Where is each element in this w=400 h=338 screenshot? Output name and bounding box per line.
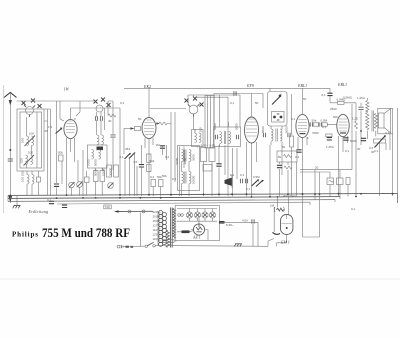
electrolytic cone dark	[225, 178, 233, 187]
svg-text:0,1: 0,1	[240, 173, 245, 177]
capacitor C4	[95, 116, 97, 120]
wire heater feed right	[220, 222, 258, 246]
svg-text:EM 1: EM 1	[280, 240, 290, 245]
trimmer arrow L1	[25, 136, 36, 147]
output transformer secondary	[374, 114, 377, 129]
node dot right	[360, 130, 362, 132]
wire mid-left drops	[62, 161, 87, 196]
svg-text:5000: 5000	[94, 169, 98, 176]
coil L1a	[27, 136, 29, 146]
output transformer primary winding	[366, 113, 369, 130]
svg-text:0,1: 0,1	[295, 155, 300, 159]
coil L9	[195, 133, 197, 143]
wire EF9 pins	[247, 142, 257, 196]
IF transformer T3 box	[178, 146, 200, 191]
capacitor C5	[100, 116, 102, 120]
tube EF9 grids	[246, 119, 257, 136]
wire cap drop	[329, 88, 331, 103]
svg-text:0,5M: 0,5M	[253, 175, 260, 179]
svg-text:5000: 5000	[350, 139, 357, 143]
coil L2b	[31, 155, 33, 165]
svg-text:0,5MΩ: 0,5MΩ	[343, 96, 353, 100]
svg-text:4,5: 4,5	[133, 160, 138, 164]
tube EBL1 envelope	[296, 114, 309, 137]
coil L6	[102, 135, 104, 145]
coil L8	[99, 150, 101, 160]
wire secondary ends	[165, 227, 167, 248]
wire EM1 feed	[278, 196, 289, 214]
mains switch	[145, 245, 147, 247]
capacitor C15 dark	[277, 165, 282, 167]
tube V1 grids	[66, 121, 75, 133]
coil box L1 outer	[17, 109, 44, 171]
capacitor C7 dark	[139, 165, 144, 167]
svg-text:50k: 50k	[162, 174, 167, 178]
wire mains to transformer	[124, 245, 158, 248]
svg-text:EBL1: EBL1	[297, 83, 307, 88]
wire detector column	[291, 94, 293, 196]
svg-text:0,2: 0,2	[172, 177, 177, 181]
svg-text:0,1: 0,1	[374, 149, 379, 153]
resistor R6	[100, 171, 105, 182]
grid stopper box EBL1b	[326, 134, 332, 137]
mains plug	[117, 245, 120, 248]
svg-text:Erdleitung: Erdleitung	[28, 209, 49, 214]
svg-text:0,1: 0,1	[322, 125, 327, 129]
svg-text:25: 25	[45, 129, 49, 133]
EM1 cathode hook dark	[273, 232, 281, 234]
bus line 1	[8, 193, 398, 195]
ground earth	[13, 206, 21, 209]
tube EBL1 grids	[298, 120, 307, 132]
svg-text:50: 50	[303, 97, 307, 101]
svg-text:6,3V~: 6,3V~	[226, 223, 234, 227]
oscillator coil box	[88, 145, 108, 168]
wire EBL1 pins	[298, 137, 307, 196]
wire speaker top	[367, 108, 397, 203]
IF transformer T1 box	[214, 127, 241, 147]
svg-text:40: 40	[108, 119, 112, 123]
wire EF9 top cap	[251, 94, 253, 118]
rectifier internals	[196, 224, 202, 232]
T3 upper core	[185, 150, 186, 162]
wire S3 feed	[150, 95, 240, 109]
wire osc column	[108, 101, 113, 170]
capacitor C20a	[310, 122, 312, 126]
heater H1	[186, 212, 192, 218]
T1 primary coil	[220, 132, 222, 144]
capacitor C9 dark	[216, 164, 221, 166]
svg-text:5000: 5000	[261, 126, 265, 133]
wire mains bottom	[158, 239, 274, 247]
T3 coil lower left	[182, 172, 184, 184]
resistor R14 zigzag	[284, 155, 292, 158]
coil L5	[97, 135, 99, 145]
left IF boxes mid column	[201, 148, 207, 162]
pickup connector box B	[337, 178, 344, 185]
heater chassis box	[175, 206, 219, 241]
wire speaker right drop	[392, 134, 394, 196]
switch S3 contacts	[185, 99, 189, 103]
capacitor C8 dark	[160, 146, 165, 148]
resistor R7	[107, 165, 112, 177]
T1 secondary coil	[229, 132, 231, 144]
tube EM1 envelope	[281, 215, 293, 235]
IF can 0 box	[192, 130, 204, 147]
wire mid verticals extra	[125, 108, 237, 196]
T3 lower core	[185, 172, 186, 184]
output transformer core	[372, 111, 374, 132]
tube EK2 envelope	[142, 118, 156, 139]
T2 primary coil	[271, 129, 273, 141]
svg-text:0,1: 0,1	[351, 207, 356, 211]
capacitor antenna series	[8, 159, 13, 161]
resistor R10	[147, 165, 152, 172]
capacitor C24 dark	[361, 138, 366, 140]
svg-text:0,2: 0,2	[150, 175, 155, 179]
svg-text:1,5: 1,5	[48, 125, 53, 129]
svg-text:100: 100	[20, 158, 24, 163]
svg-text:50k: 50k	[150, 159, 155, 163]
svg-text:100 100: 100 100	[21, 171, 25, 182]
svg-text:Philips: Philips	[12, 231, 38, 239]
wire dial drop	[139, 213, 141, 247]
resistor R4 zigzag	[108, 114, 116, 117]
trimmer CT3	[108, 183, 114, 189]
svg-text:100: 100	[21, 138, 25, 143]
svg-text:20: 20	[315, 166, 319, 170]
aux box	[203, 165, 212, 172]
wire interstage	[309, 123, 337, 125]
potentiometer tone	[374, 139, 386, 143]
tube EBL1b grids	[339, 119, 348, 131]
svg-text:0,1: 0,1	[322, 93, 327, 97]
wire pair vertical x47	[44, 109, 51, 196]
resistor R3	[85, 177, 90, 183]
tube V1 triode-hexode envelope	[64, 119, 77, 138]
power transformer heater secondary	[173, 209, 176, 239]
switch lever pivot	[279, 95, 282, 98]
capacitor C16	[263, 133, 265, 137]
svg-text:3000: 3000	[183, 157, 187, 164]
resistor R15 zigzag	[284, 166, 292, 169]
contact dots	[273, 116, 276, 119]
wire EM1 bottom	[274, 207, 287, 246]
svg-text:1M: 1M	[270, 204, 275, 208]
heater H2	[194, 212, 200, 218]
capacitor C19 dark on top bus	[327, 93, 332, 95]
grid resistor with arrow	[159, 122, 167, 125]
loudspeaker magnet	[379, 113, 385, 128]
power transformer primary loops	[159, 211, 167, 247]
capacitor grid V1 with arrow	[56, 129, 62, 134]
scan left edge artifact	[3, 85, 5, 213]
wire V1 pins	[67, 138, 75, 196]
svg-text:3-30: 3-30	[201, 144, 207, 148]
coil L1b	[32, 136, 34, 146]
coil box L1 inner	[20, 112, 42, 168]
capacitor C3 dark	[54, 184, 59, 186]
capacitor C6	[110, 135, 115, 137]
EM1 internal	[282, 222, 292, 224]
bus line 4	[57, 202, 310, 204]
wire coil box internals	[27, 112, 38, 168]
heater H4	[209, 212, 215, 218]
wire screen drops	[270, 145, 297, 196]
svg-text:AZ 1: AZ 1	[192, 235, 201, 240]
resistor R1	[37, 177, 41, 182]
wire S2 columns	[97, 108, 105, 135]
svg-text:1: 1	[307, 136, 309, 140]
switch S1 wavechange contacts	[22, 101, 26, 105]
arrow into EK2	[124, 128, 135, 130]
pickup connector box A	[327, 178, 334, 185]
coil L2a	[26, 155, 28, 165]
wire T2 connections	[270, 89, 282, 146]
pickup squiggle	[329, 181, 334, 183]
wire bus left ends	[8, 195, 10, 201]
svg-text:10000: 10000	[192, 175, 196, 184]
switch S2 contacts	[94, 100, 98, 104]
label 730 boxed	[104, 205, 111, 209]
wire EBL1 top	[302, 89, 304, 115]
resistor R8	[114, 165, 119, 177]
loudspeaker outer frame	[378, 108, 393, 134]
bus line 3	[8, 200, 335, 202]
svg-text:1,25A: 1,25A	[357, 96, 365, 100]
resistor R2	[59, 155, 64, 161]
wire right nested corners	[300, 104, 352, 172]
coil L3 below box	[27, 175, 29, 185]
resistor R5	[94, 171, 99, 182]
svg-text:1W: 1W	[64, 87, 70, 92]
wire osc drops	[96, 168, 103, 196]
wire detector top	[214, 94, 263, 128]
arrow on antenna lead	[9, 100, 12, 106]
power transformer core	[171, 208, 173, 248]
wire V1 vicinity	[44, 101, 80, 121]
capacitor C12	[240, 179, 242, 183]
resistor R9	[147, 154, 152, 163]
dial cord line	[116, 210, 154, 212]
svg-text:755 M und 788 RF: 755 M und 788 RF	[42, 225, 130, 240]
T3 coil lower right	[189, 172, 191, 184]
T3 coil upper left	[182, 150, 184, 162]
resistor R20	[346, 178, 350, 185]
svg-text:1,25: 1,25	[352, 117, 358, 121]
grid stopper box	[135, 127, 141, 131]
bus line 2	[8, 197, 340, 199]
svg-text:1000: 1000	[87, 159, 91, 166]
wire second top line	[195, 97, 228, 108]
wire heater bus	[177, 209, 217, 222]
dial pulley B	[142, 210, 145, 213]
svg-text:30000: 30000	[109, 167, 113, 176]
wire top bus	[124, 87, 330, 89]
T2 secondary coil	[280, 129, 282, 141]
resistor R19 vertical zigzag	[355, 121, 358, 129]
capacitor C20b	[319, 122, 321, 126]
screen network box	[277, 151, 297, 162]
svg-text:3000: 3000	[192, 154, 196, 161]
capacitor C2 dark	[49, 201, 54, 203]
cathode mark EBL1b	[340, 132, 346, 134]
svg-text:50k: 50k	[333, 115, 338, 119]
svg-text:50k: 50k	[58, 151, 63, 155]
resistor R18 box	[338, 101, 345, 104]
wire C23 drop	[360, 111, 362, 146]
resistor R17b box	[322, 123, 327, 126]
capacitor C18 dark	[296, 150, 301, 152]
wire antenna lead-in	[9, 94, 11, 204]
capacitor C23	[358, 107, 363, 109]
wire ground stub	[16, 196, 18, 205]
svg-text:0,5M: 0,5M	[321, 119, 328, 123]
svg-text:5000: 5000	[213, 123, 217, 130]
choke zigzag above transformer	[366, 98, 369, 112]
T1 core	[224, 131, 225, 144]
wire right bus steps	[303, 170, 398, 237]
T2 core	[276, 129, 277, 142]
capacitor C2b dark	[62, 205, 67, 207]
resistor R11	[151, 180, 156, 187]
switch unit box	[268, 92, 288, 127]
wire fuse	[174, 240, 177, 242]
resistor R17 coupling box	[313, 123, 318, 126]
wire EBL1b pins	[339, 136, 348, 196]
node bus junctions	[9, 193, 339, 199]
ground mains	[234, 244, 242, 247]
tube EF9 envelope	[245, 117, 259, 143]
node bus junctions right	[82, 193, 393, 199]
svg-text:50: 50	[138, 117, 142, 121]
wire S3 drops	[188, 95, 197, 148]
svg-text:7000: 7000	[312, 131, 319, 135]
wire EK2 pins	[124, 129, 153, 196]
svg-text:3-30: 3-30	[209, 144, 215, 148]
svg-text:2500: 2500	[330, 107, 337, 111]
svg-text:4,5V: 4,5V	[242, 219, 248, 223]
padder dark blob	[97, 147, 104, 151]
svg-text:0,2: 0,2	[385, 131, 390, 135]
capacitor C21 dark	[343, 138, 348, 140]
dial arrow	[114, 210, 118, 213]
wire left column drops	[27, 171, 39, 196]
resistor R16	[290, 136, 294, 147]
wire right column	[380, 132, 391, 197]
svg-text:50k: 50k	[312, 119, 317, 123]
svg-text:0,1: 0,1	[120, 101, 125, 105]
svg-text:100: 100	[29, 132, 34, 136]
resistor R12	[159, 180, 164, 187]
switch lever	[272, 97, 280, 105]
coil L10	[199, 133, 201, 143]
svg-text:454: 454	[125, 147, 130, 151]
wire V1 top cap	[71, 108, 121, 119]
capacitor C25 dark	[327, 138, 332, 140]
svg-text:1M: 1M	[156, 143, 161, 147]
arrow to chassis	[9, 196, 13, 203]
trimmer arrow L2	[24, 155, 35, 166]
wire T3 links	[182, 162, 190, 197]
wire T1 connections	[220, 95, 241, 147]
wire R19 column	[355, 131, 357, 196]
resistor R23 dark	[182, 230, 190, 233]
capacitor C22	[252, 219, 254, 223]
switch S3 rotor	[189, 105, 198, 114]
svg-text:EBL1: EBL1	[337, 82, 347, 87]
trimmer CT2	[77, 182, 83, 188]
wire primary taps	[158, 213, 161, 246]
wire extra verticals	[78, 150, 83, 196]
svg-text:10000: 10000	[102, 167, 106, 176]
dial pulley A	[128, 210, 131, 213]
svg-text:0,1: 0,1	[120, 155, 125, 159]
svg-text:8,2: 8,2	[230, 173, 235, 177]
svg-text:730: 730	[105, 205, 110, 209]
tube EBL1b envelope	[337, 114, 349, 136]
svg-text:5000: 5000	[285, 126, 289, 133]
component value labels	[28, 96, 390, 192]
svg-text:50: 50	[255, 101, 259, 105]
trimmer CT1	[69, 182, 75, 188]
loudspeaker cone	[384, 109, 391, 133]
power transformer HV secondary	[166, 231, 169, 248]
contact block	[272, 112, 285, 123]
svg-text:0,1: 0,1	[345, 149, 350, 153]
heater H3	[202, 212, 208, 218]
scan streak artifact	[0, 278, 400, 279]
wire S3 columns	[171, 112, 175, 130]
wire x120 drop	[119, 108, 121, 196]
node antenna junction	[9, 149, 11, 151]
svg-text:0,1: 0,1	[291, 117, 296, 121]
svg-text:100: 100	[199, 127, 203, 132]
fuse box	[163, 240, 174, 243]
capacitor C17	[288, 133, 290, 137]
svg-text:3: 3	[74, 117, 76, 121]
wire pickup drops	[330, 170, 348, 197]
switch S2 rotor	[96, 105, 103, 112]
cathode mark EBL1a	[300, 133, 306, 135]
svg-text:5k: 5k	[282, 145, 286, 149]
svg-text:0,2: 0,2	[165, 155, 170, 159]
svg-text:40Ω 0,4Ω: 40Ω 0,4Ω	[283, 194, 297, 198]
resistor R22 into EM1	[277, 208, 284, 211]
T3 coil upper right	[189, 150, 191, 162]
tube EK2 grids	[144, 120, 154, 135]
wire R18	[330, 103, 361, 121]
svg-text:50: 50	[193, 129, 197, 133]
wire EK2 top	[148, 89, 150, 118]
svg-text:100: 100	[28, 151, 33, 155]
svg-text:30: 30	[357, 147, 361, 151]
resistor R13	[209, 148, 215, 162]
capacitor C11	[236, 135, 238, 139]
heater connector circles	[178, 214, 181, 217]
rectifier AZ1 envelope	[193, 224, 204, 235]
capacitor C14 on top wire	[234, 91, 236, 95]
coil L4 below box	[32, 175, 34, 185]
capacitor C13	[245, 179, 247, 183]
wire x56	[56, 101, 58, 196]
switch S1 rotor	[26, 107, 34, 115]
AVC arrows dark	[252, 180, 263, 187]
svg-text:2000: 2000	[235, 123, 239, 130]
svg-text:EF9: EF9	[246, 83, 254, 88]
screen-grid tall can	[205, 96, 214, 149]
svg-text:0,1: 0,1	[230, 101, 235, 105]
